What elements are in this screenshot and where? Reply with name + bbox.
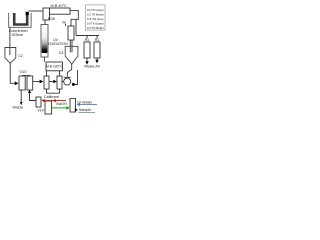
arrow up into V10 bbox=[28, 90, 31, 93]
legend box bbox=[86, 5, 106, 30]
waste air line left bbox=[86, 58, 88, 61]
svg-text:R1: R1 bbox=[85, 38, 90, 42]
line C2 to valve V10 bbox=[10, 63, 15, 83]
R1 manifold line bbox=[76, 35, 99, 37]
svg-text:0.8 TN Copper: 0.8 TN Copper bbox=[87, 8, 104, 12]
waste air line right bbox=[96, 58, 98, 60]
svg-text:V10: V10 bbox=[19, 69, 27, 74]
line flow cell to separator C2 bbox=[9, 27, 11, 55]
svg-text:Waste: Waste bbox=[12, 105, 23, 109]
naoh arrow bbox=[66, 106, 69, 109]
C3 outlet to debubbler bbox=[67, 64, 71, 77]
bath outlet left bbox=[46, 71, 48, 76]
svg-text:Calibrant: Calibrant bbox=[44, 95, 60, 99]
svg-text:M.B 40°C: M.B 40°C bbox=[51, 4, 68, 8]
naoh line bbox=[52, 107, 66, 109]
pump bypass loop bbox=[47, 89, 60, 93]
pump link arrow bbox=[53, 80, 57, 83]
separator C2 bbox=[5, 48, 16, 64]
flow cell inlet cap bbox=[26, 12, 29, 15]
tube outlet neck left bbox=[69, 40, 71, 52]
flow cell U-tube bbox=[14, 13, 27, 25]
UV column gradient fill bbox=[42, 25, 48, 53]
sample line bbox=[79, 112, 96, 114]
W stub into tube bbox=[65, 24, 67, 27]
line V10 to pump bbox=[33, 81, 40, 83]
bath outlet right bbox=[59, 71, 61, 76]
svg-text:Sample: Sample bbox=[79, 108, 92, 112]
waste air arrow left bbox=[85, 61, 88, 65]
arrow into V10 bbox=[15, 81, 19, 85]
svg-text:525nm: 525nm bbox=[12, 33, 23, 37]
valve V10 left port bbox=[19, 76, 25, 90]
MB40 outlet path bbox=[70, 11, 78, 26]
calibrant line bbox=[42, 100, 66, 102]
riser to R1 manifold bbox=[75, 19, 77, 35]
recycle line bbox=[75, 70, 78, 85]
waste line from V10 bbox=[20, 90, 22, 102]
calibrant arrow mid bbox=[53, 99, 56, 102]
di water arrow bbox=[77, 103, 80, 106]
pump link line bbox=[49, 81, 54, 83]
heating bath MB40 box bbox=[50, 8, 71, 14]
tube flow cell to FO8 box bbox=[29, 10, 44, 12]
calibrant arrow left bbox=[41, 99, 44, 102]
svg-text:0.6 TN Grey: 0.6 TN Grey bbox=[87, 17, 104, 21]
svg-text:R1: R1 bbox=[95, 38, 100, 42]
svg-text:V14: V14 bbox=[37, 108, 43, 112]
heating bath MB100 box bbox=[46, 62, 63, 71]
svg-text:C2: C2 bbox=[18, 54, 23, 58]
return line V14 to V10 bbox=[30, 93, 37, 101]
FO8 box bbox=[43, 8, 50, 20]
svg-text:M.B 100°C: M.B 100°C bbox=[46, 65, 63, 69]
svg-text:NaOH: NaOH bbox=[56, 102, 67, 106]
arrow into pump bbox=[40, 80, 44, 84]
svg-text:C3: C3 bbox=[59, 51, 64, 55]
svg-text:OXIDATION: OXIDATION bbox=[48, 42, 68, 46]
junction dot bbox=[72, 83, 75, 86]
pump tube left bbox=[44, 76, 49, 89]
UV column inlet from FO8 bbox=[44, 20, 46, 25]
R1 left stub bbox=[86, 36, 88, 43]
svg-text:0.8 TN Sodium: 0.8 TN Sodium bbox=[87, 22, 104, 26]
valve V14 bbox=[36, 97, 41, 107]
svg-text:0.2 TN Brown: 0.2 TN Brown bbox=[87, 13, 104, 17]
di water line bbox=[80, 104, 98, 106]
debubbler circle bbox=[64, 78, 71, 85]
UV column outlet bbox=[43, 57, 45, 62]
column R1 right bbox=[94, 42, 100, 58]
svg-text:0.2 TN Buffer: 0.2 TN Buffer bbox=[87, 26, 104, 30]
UV column body bbox=[41, 25, 48, 58]
svg-text:DI Water: DI Water bbox=[77, 100, 93, 104]
sample arrow bbox=[75, 108, 78, 111]
pump to debubbler line bbox=[62, 81, 64, 83]
svg-text:FO8: FO8 bbox=[48, 17, 55, 21]
valve V10 top link bbox=[22, 75, 30, 77]
R1 right stub bbox=[96, 36, 98, 43]
pump tube right bbox=[57, 76, 62, 89]
waste arrowhead bbox=[20, 102, 23, 105]
separator C3 bbox=[65, 46, 78, 64]
svg-text:Waste Air: Waste Air bbox=[84, 64, 101, 68]
valve V17 bbox=[70, 99, 76, 112]
valve V10 right port bbox=[27, 76, 33, 90]
waste air arrow right bbox=[95, 60, 98, 64]
reactor tube bbox=[68, 26, 74, 40]
debubbler cap bbox=[64, 76, 71, 78]
column R1 left bbox=[84, 42, 90, 58]
tube outlet neck right bbox=[71, 40, 73, 52]
colorimeter box bbox=[9, 13, 31, 27]
valve V15 bbox=[45, 101, 52, 114]
